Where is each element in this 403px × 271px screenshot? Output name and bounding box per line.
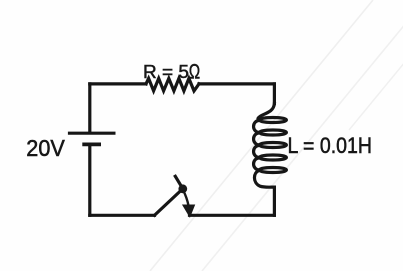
- wire: bottom left horizontal (corner to switch): [90, 214, 155, 217]
- wire: top right horizontal (resistor to right corner): [199, 82, 274, 85]
- inductor L1 loop 5: [259, 168, 286, 173]
- switch SW1 blade arm: [155, 189, 183, 216]
- resistor R1 zigzag: [146, 78, 199, 91]
- svg-text:L = 0.01H: L = 0.01H: [288, 133, 373, 158]
- wire: bottom right horizontal (switch to right corner): [190, 214, 275, 217]
- wire: right rail lower (inductor to bottom corner): [273, 187, 276, 215]
- inductor L1 left arc 1-2: [254, 120, 260, 132]
- inductor L1 loop 2: [259, 130, 286, 135]
- battery V1 long plate: [68, 132, 116, 135]
- wire: top left horizontal (left corner to resistor): [90, 82, 146, 85]
- inductor L1 left arc 2-3: [254, 133, 260, 145]
- svg-text:Ω: Ω: [189, 60, 200, 84]
- watermark diagonal line 2: [202, 0, 403, 271]
- inductor L1 loop 3: [259, 143, 286, 148]
- switch SW1 terminal stub: [175, 176, 183, 188]
- inductor L1 loop 1: [259, 118, 286, 123]
- switch SW1 motion arrowhead: [183, 205, 195, 217]
- inductor L1 entry curve: [258, 104, 274, 121]
- wire: right rail upper (top corner down to inductor): [273, 84, 276, 104]
- wire: left rail lower (battery to bottom corner): [88, 146, 91, 216]
- switch SW1 pivot dot: [178, 184, 187, 193]
- svg-text:R = 5: R = 5: [143, 62, 189, 82]
- watermark diagonal line 3: [349, 0, 403, 130]
- watermark diagonal line 1: [150, 0, 373, 271]
- inductor L1 exit curve: [254, 170, 274, 187]
- inductor L1 left arc 4-5: [254, 158, 260, 170]
- battery V1 short plate: [82, 142, 101, 146]
- inductor L1 loop 4: [259, 155, 286, 160]
- svg-text:20V: 20V: [26, 135, 65, 161]
- switch SW1 motion arrow shaft: [183, 191, 188, 206]
- inductor L1 left arc 3-4: [254, 145, 260, 157]
- wire: left rail upper (corner down to battery): [88, 84, 91, 132]
